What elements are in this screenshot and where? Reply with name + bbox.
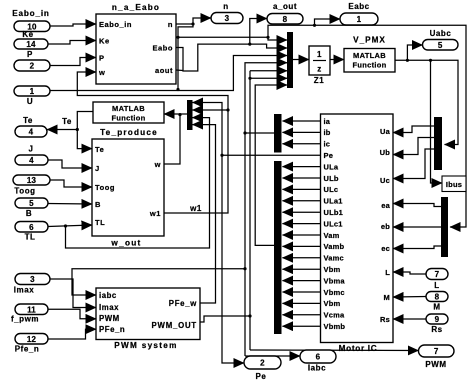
wire Z1 to MATLAB Function V_PMX (330, 59, 344, 61)
port oval 13 Toog (13, 175, 50, 185)
wire eb to Motor IC (393, 226, 441, 228)
port oval 1 U (14, 86, 50, 96)
svg-text:Rs: Rs (431, 325, 442, 334)
svg-text:2: 2 (30, 62, 35, 71)
block Ibus (442, 176, 466, 192)
port oval 11 f_pwm (15, 304, 48, 315)
wire Te to oval 4 (47, 129, 77, 131)
wire PFe_w to Te mux input 4 (193, 125, 216, 303)
port oval 3 n (211, 13, 243, 24)
svg-text:ULc1: ULc1 (324, 219, 343, 228)
wire ec to Motor IC (393, 246, 441, 249)
wire J to w_out (48, 160, 92, 168)
svg-text:Uabc: Uabc (430, 29, 452, 38)
svg-text:P: P (99, 54, 105, 63)
mux bar1L iabc (274, 114, 282, 153)
node mux input 6 branch (248, 77, 251, 80)
svg-text:Vbm: Vbm (324, 265, 341, 274)
wire Pfe_n to PWM system (48, 329, 96, 339)
port oval 14 Ke (14, 39, 48, 49)
port oval 9 Rs (426, 314, 448, 324)
svg-text:w1: w1 (149, 209, 161, 218)
svg-text:Toog: Toog (14, 187, 35, 196)
svg-text:n_a_Eabo: n_a_Eabo (112, 3, 160, 12)
svg-text:L: L (385, 268, 390, 277)
wire branch to V_PMX mux input 6 (250, 77, 287, 79)
svg-text:ULc: ULc (324, 185, 339, 194)
svg-text:13: 13 (27, 176, 37, 185)
svg-text:B: B (26, 209, 32, 218)
svg-text:ia: ia (324, 117, 331, 126)
block Motor IC (321, 114, 394, 343)
svg-text:Imax: Imax (14, 286, 34, 295)
svg-text:M: M (384, 293, 390, 302)
svg-text:Uc: Uc (380, 176, 390, 185)
wire branch to V_PMX mux input 5 (250, 70, 287, 72)
svg-text:1: 1 (317, 50, 322, 59)
mux Te_produce inputs (187, 100, 193, 130)
svg-text:z: z (317, 65, 322, 74)
svg-text:3: 3 (225, 14, 230, 23)
svg-text:Pfe_n: Pfe_n (15, 345, 40, 354)
wire mux output to Z1 (293, 59, 309, 61)
wire iabc to PWM system input (72, 269, 245, 295)
block PWM system (96, 288, 200, 340)
node Uabc to oval (406, 59, 409, 62)
svg-text:14: 14 (26, 40, 36, 49)
svg-text:2: 2 (260, 359, 265, 368)
port oval 12 Pfe_n (15, 334, 48, 345)
wire to Ibus block (431, 60, 443, 183)
port oval 2 P (14, 60, 50, 71)
wire Pe output long (222, 155, 321, 363)
svg-text:1: 1 (357, 15, 362, 24)
port oval 4 Te output (15, 126, 47, 137)
svg-text:3: 3 (30, 275, 35, 284)
svg-text:V_PMX: V_PMX (353, 36, 386, 45)
svg-text:Function: Function (352, 61, 386, 70)
svg-text:PWM_OUT: PWM_OUT (152, 321, 197, 330)
svg-text:Eabo: Eabo (152, 44, 173, 53)
port oval 8 a_out (267, 14, 303, 25)
svg-text:4: 4 (29, 128, 34, 137)
wire Te output to oval and w_out (77, 112, 93, 149)
svg-text:7: 7 (435, 270, 440, 279)
svg-text:B: B (95, 200, 101, 209)
svg-text:Toog: Toog (95, 183, 115, 192)
svg-text:1: 1 (30, 87, 35, 96)
svg-text:Ke: Ke (22, 30, 33, 39)
wire U riser from U line to top line (177, 37, 179, 89)
wire w1 branch to Te mux input 2 (193, 109, 229, 111)
mux bar2L voltages (274, 161, 282, 334)
svg-text:8: 8 (435, 293, 440, 302)
node iabc junction (243, 131, 246, 134)
wire Toog to w_out (50, 180, 92, 187)
svg-text:Te: Te (62, 117, 72, 126)
wire Rs to Motor IC (393, 318, 426, 320)
svg-text:Function: Function (111, 114, 145, 123)
wire iabc bus vertical to V_PMX mux input 4 (245, 63, 287, 356)
svg-text:6: 6 (316, 353, 321, 362)
port oval 2 Pe (244, 356, 281, 369)
port oval 5 B (15, 198, 48, 208)
svg-text:aout: aout (155, 66, 173, 75)
node Eabc line tap (266, 36, 269, 39)
port oval 6 Iabc (300, 350, 336, 363)
block MATLAB Function Te_produce (93, 102, 164, 123)
svg-text:9: 9 (435, 315, 440, 324)
svg-text:J: J (29, 145, 34, 154)
svg-text:ULb1: ULb1 (324, 208, 344, 217)
port oval 7 L (426, 269, 448, 280)
svg-text:iabc: iabc (99, 291, 117, 300)
svg-text:U: U (27, 97, 33, 106)
svg-text:ic: ic (324, 140, 331, 149)
wire B to w_out (48, 203, 92, 206)
svg-text:TL: TL (25, 233, 36, 242)
svg-text:Eabc: Eabc (348, 2, 369, 11)
wire w output joins Te mux output wire (164, 115, 180, 164)
node Ibus branch (429, 59, 432, 62)
wire vertical shared line (249, 71, 251, 350)
svg-text:PWM: PWM (99, 314, 120, 323)
svg-text:Vam: Vam (324, 231, 340, 240)
svg-text:Rs: Rs (380, 315, 390, 324)
wire branch up to oval 8 a_out (250, 19, 267, 45)
svg-text:Pe: Pe (256, 372, 267, 381)
svg-text:Z1: Z1 (314, 76, 324, 85)
svg-text:w: w (154, 160, 161, 169)
node TL branch (64, 224, 67, 227)
svg-text:w1: w1 (189, 204, 202, 213)
wire PWM_OUT to oval 7 PWM (250, 349, 419, 352)
block w_out (92, 139, 164, 236)
svg-text:Motor IC: Motor IC (339, 344, 378, 353)
wire n output to oval 3 (176, 18, 211, 24)
svg-text:12: 12 (27, 335, 37, 344)
svg-text:L: L (434, 281, 439, 290)
wires Motor IC left outputs into mux bars (283, 120, 321, 122)
svg-text:8: 8 (283, 15, 288, 24)
port oval 6 TL (15, 222, 48, 233)
svg-text:Ibus: Ibus (446, 180, 462, 189)
wire mux output into Te_produce MATLAB (164, 113, 187, 115)
wire M to Motor IC (393, 296, 426, 299)
wire bar2L output to V_PMX mux input 7 (255, 85, 287, 245)
wire Ke to n_a_Eabo (48, 41, 96, 45)
wire ea to Motor IC (393, 204, 441, 207)
wire TL branch to Te mux input 3 (66, 118, 210, 248)
svg-text:Vbmb: Vbmb (324, 322, 346, 331)
demux bar1R Uabc (434, 117, 442, 170)
svg-text:Vamc: Vamc (324, 254, 344, 263)
svg-text:ULa1: ULa1 (324, 197, 343, 206)
wire U riser branch (176, 36, 179, 39)
node Te branch (76, 128, 79, 131)
wire bar1L output to iabc bus (245, 132, 274, 134)
wire Uabc branch to oval 5 (407, 45, 422, 60)
svg-text:Ub: Ub (380, 148, 391, 157)
svg-text:ib: ib (324, 128, 331, 137)
wire Uc to Motor IC (393, 149, 434, 179)
svg-text:J: J (95, 164, 100, 173)
svg-text:Vbmc: Vbmc (324, 288, 345, 297)
wire Eabo_in to n_a_Eabo (50, 24, 96, 26)
svg-text:5: 5 (438, 41, 443, 50)
svg-text:Ke: Ke (99, 37, 110, 46)
wire L to Motor IC (393, 272, 426, 274)
block Z1 unit delay (309, 46, 330, 75)
svg-text:6: 6 (29, 223, 34, 232)
svg-text:P: P (27, 50, 33, 59)
wire PWM_OUT joins shared vertical (200, 316, 250, 322)
svg-text:ULb: ULb (324, 174, 339, 183)
node w1 branch to te mux (226, 108, 229, 111)
svg-text:Ua: Ua (380, 127, 391, 136)
svg-text:7: 7 (434, 347, 439, 356)
port oval 1 Eabc (340, 13, 378, 25)
port oval 3 Imax (15, 274, 50, 285)
svg-text:Vcma: Vcma (324, 311, 345, 320)
svg-text:n: n (168, 20, 173, 29)
node iabc to PWM branch (243, 267, 246, 270)
svg-text:PFe_w: PFe_w (169, 299, 197, 308)
svg-text:5: 5 (29, 199, 34, 208)
wire Eabc long line to demux bar2R (268, 25, 466, 227)
svg-text:w_out: w_out (110, 239, 141, 248)
svg-text:11: 11 (27, 305, 36, 314)
svg-text:4: 4 (29, 156, 34, 165)
svg-text:w: w (98, 68, 105, 77)
port oval 10 Eabo_in (14, 21, 50, 32)
wire aout stub (176, 69, 183, 72)
svg-text:ULa: ULa (324, 162, 339, 171)
wire iabc to oval 6 Iabc (245, 355, 300, 357)
node PWM_OUT branch (248, 314, 251, 317)
svg-text:Eabo_in: Eabo_in (99, 20, 132, 29)
node Eabc branch (313, 24, 316, 27)
svg-text:Imax: Imax (99, 303, 119, 312)
svg-text:PWM system: PWM system (114, 341, 178, 350)
mux V_PMX inputs (287, 32, 293, 88)
wire Pe branch to Te mux input 1 (193, 103, 223, 156)
svg-text:Vamb: Vamb (324, 242, 345, 251)
svg-text:n: n (223, 2, 228, 11)
svg-text:eb: eb (381, 222, 390, 231)
svg-text:PFe_n: PFe_n (99, 325, 125, 334)
block MATLAB Function V_PMX (344, 49, 395, 73)
port oval 8 M (426, 292, 448, 302)
wire P to n_a_Eabo (50, 58, 96, 66)
svg-text:Pe: Pe (324, 151, 334, 160)
wire branch to oval 1 Eabc (315, 19, 341, 25)
wire TL to w_out (48, 225, 92, 227)
port oval 7 PWM output (419, 345, 455, 357)
wire Ub to Motor IC (393, 138, 434, 155)
svg-text:M: M (433, 303, 440, 312)
port oval 4 J (15, 155, 48, 165)
wire U to V_PMX mux input 3 (50, 56, 287, 91)
svg-text:f_pwm: f_pwm (11, 315, 39, 324)
svg-text:MATLAB: MATLAB (353, 51, 386, 60)
node a_out branch (248, 43, 251, 46)
wire Eabo output down (176, 44, 287, 71)
port oval 5 Uabc (423, 40, 459, 51)
node Pe branch (220, 154, 223, 157)
svg-text:Te: Te (95, 145, 104, 154)
svg-text:ec: ec (381, 244, 390, 253)
wire Ua to Motor IC (393, 126, 434, 133)
svg-text:MATLAB: MATLAB (112, 104, 145, 113)
node w join (178, 113, 181, 116)
wire Imax to PWM system (50, 279, 96, 308)
demux bar2R Eabc (441, 197, 448, 257)
wire n branch to V_PMX mux input 1 (178, 24, 287, 40)
svg-text:Te: Te (23, 116, 33, 125)
node n branch (191, 22, 194, 25)
svg-text:ea: ea (381, 201, 390, 210)
svg-text:Vbma: Vbma (324, 276, 346, 285)
svg-text:Iabc: Iabc (308, 364, 326, 373)
wire Uabc output to right demux bar1R (395, 60, 458, 144)
svg-text:PWM: PWM (425, 360, 446, 369)
svg-text:Te_produce: Te_produce (100, 128, 158, 137)
block n_a_Eabo (96, 14, 176, 84)
svg-text:Vbm: Vbm (324, 299, 341, 308)
wire w1 output feedback (77, 72, 228, 213)
svg-text:TL: TL (95, 218, 105, 227)
svg-text:Eabo_in: Eabo_in (12, 9, 49, 18)
wire f_pwm to PWM system (48, 309, 96, 319)
svg-text:a_out: a_out (273, 2, 297, 11)
